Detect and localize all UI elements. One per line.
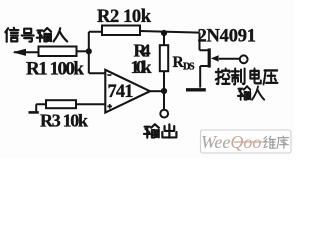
svg-text:741: 741 xyxy=(108,82,134,102)
svg-text:R3 10k: R3 10k xyxy=(40,111,88,131)
svg-text:2N4091: 2N4091 xyxy=(198,27,257,47)
svg-text:10k: 10k xyxy=(131,57,152,77)
svg-text:R2 10k: R2 10k xyxy=(97,7,152,27)
svg-text:DS: DS xyxy=(183,62,195,73)
svg-text:R1 100k: R1 100k xyxy=(26,59,84,80)
